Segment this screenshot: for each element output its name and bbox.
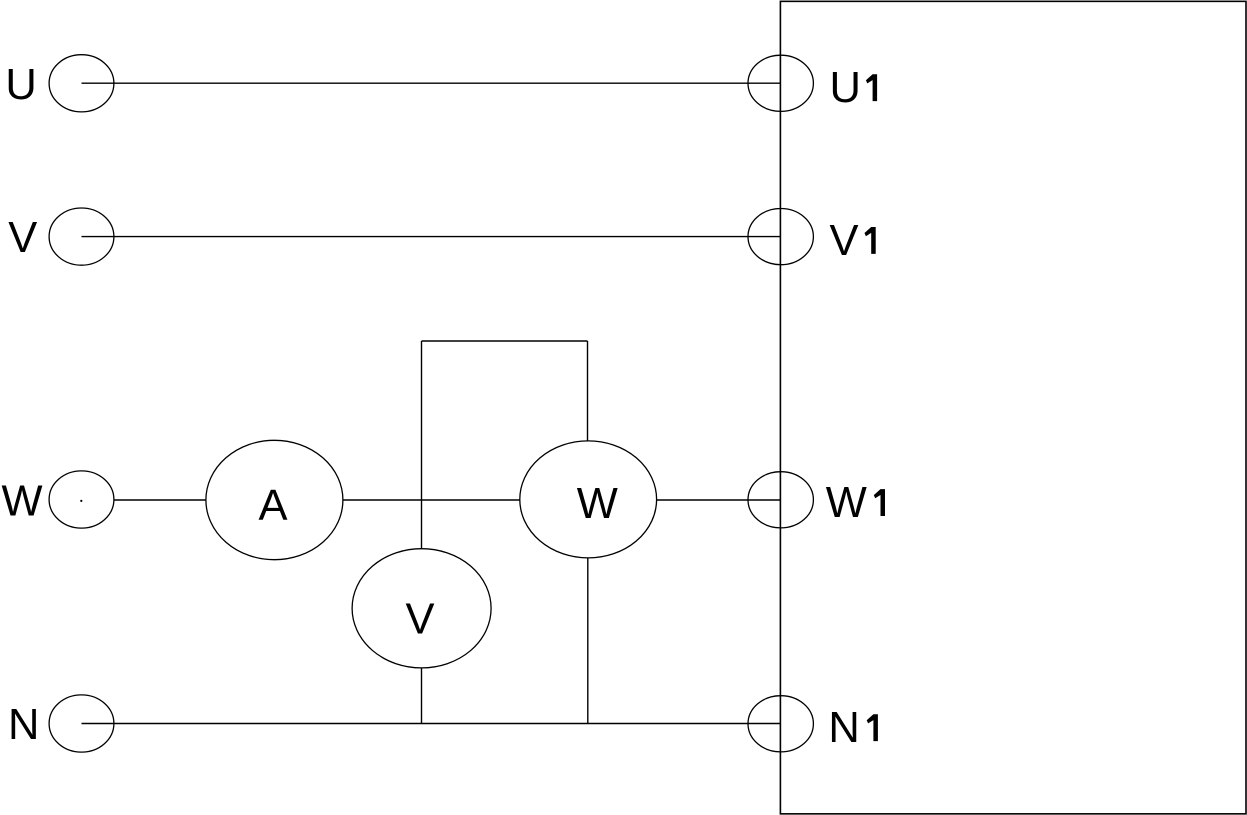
svg-text:W: W bbox=[577, 480, 618, 528]
svg-text:V: V bbox=[406, 596, 435, 644]
wattmeter W bbox=[520, 441, 657, 558]
wire voltmeter top vertical bbox=[421, 341, 423, 549]
terminal U bbox=[49, 55, 114, 112]
wire V to V1 bbox=[82, 236, 781, 238]
svg-text:U: U bbox=[5, 61, 36, 109]
terminal W bbox=[49, 471, 114, 528]
voltmeter V bbox=[352, 549, 491, 668]
terminal N1 bbox=[748, 696, 813, 752]
load box (motor under test) bbox=[780, 1, 1246, 814]
ammeter A bbox=[206, 440, 343, 559]
svg-text:A: A bbox=[259, 482, 288, 530]
terminal U1 bbox=[748, 55, 813, 111]
wire wattmeter bottom to N bbox=[587, 558, 589, 724]
svg-text:N: N bbox=[828, 704, 859, 752]
terminal V1 bbox=[748, 209, 813, 265]
wire W terminal to ammeter A bbox=[114, 499, 206, 501]
wire voltage loop top horizontal bbox=[422, 340, 588, 342]
wire voltmeter bottom to N bbox=[421, 668, 423, 724]
svg-text:U: U bbox=[830, 64, 861, 112]
svg-text:W: W bbox=[826, 479, 867, 527]
svg-text:N: N bbox=[8, 701, 39, 749]
svg-text:V: V bbox=[830, 217, 859, 265]
terminal V bbox=[49, 208, 114, 265]
svg-text:V: V bbox=[8, 214, 37, 262]
wire N to N1 bbox=[82, 723, 781, 725]
terminal N bbox=[49, 695, 114, 752]
terminal W center dot bbox=[80, 500, 82, 502]
terminal W1 bbox=[748, 472, 813, 528]
wire U to U1 bbox=[82, 82, 781, 84]
wire ammeter A to wattmeter W bbox=[343, 499, 520, 501]
wire wattmeter W to W1 bbox=[657, 499, 781, 501]
svg-text:W: W bbox=[2, 478, 43, 526]
wire wattmeter voltage coil vertical bbox=[587, 341, 589, 441]
